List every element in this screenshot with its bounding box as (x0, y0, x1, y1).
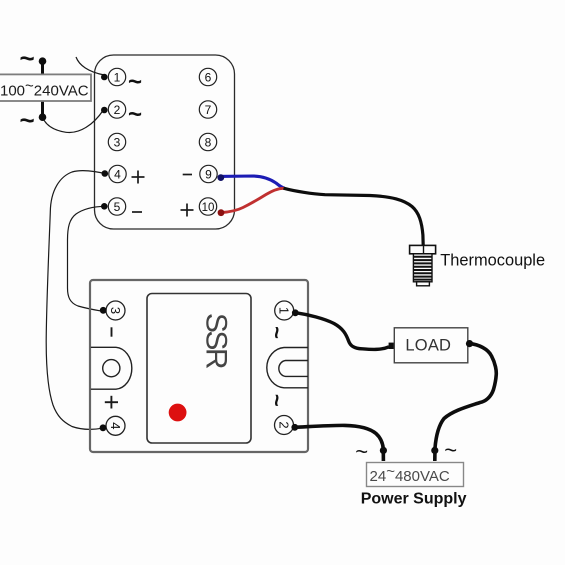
svg-text:4: 4 (114, 167, 121, 181)
svg-text:2: 2 (114, 103, 121, 117)
svg-text:Power Supply: Power Supply (361, 490, 467, 507)
svg-text:~: ~ (20, 105, 35, 135)
svg-text:7: 7 (205, 103, 212, 117)
svg-text:~: ~ (265, 394, 290, 407)
svg-text:~: ~ (20, 43, 35, 73)
svg-text:9: 9 (205, 167, 212, 181)
svg-text:4: 4 (108, 422, 123, 429)
svg-text:SSR: SSR (200, 313, 233, 369)
svg-text:~: ~ (265, 326, 290, 339)
svg-text:~: ~ (355, 439, 368, 464)
svg-text:6: 6 (205, 70, 212, 84)
svg-text:~: ~ (128, 69, 142, 96)
svg-text:LOAD: LOAD (405, 337, 451, 355)
svg-text:~: ~ (444, 438, 457, 463)
svg-text:5: 5 (114, 200, 121, 214)
svg-text:1: 1 (277, 307, 292, 314)
svg-text:3: 3 (108, 307, 123, 314)
svg-text:3: 3 (114, 135, 121, 149)
svg-text:2: 2 (276, 421, 291, 428)
svg-text:8: 8 (205, 135, 212, 149)
svg-text:~: ~ (128, 101, 142, 128)
svg-text:10: 10 (202, 202, 215, 214)
svg-text:1: 1 (114, 70, 121, 84)
svg-text:Thermocouple: Thermocouple (440, 252, 545, 270)
